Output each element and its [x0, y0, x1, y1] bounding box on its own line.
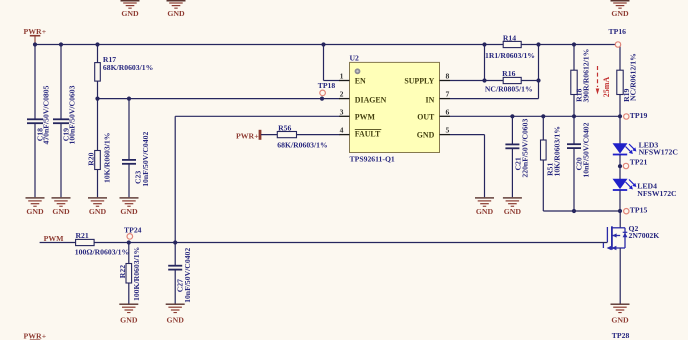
ground (C23) — [120, 197, 139, 216]
node: rail junction right of R14 — [536, 42, 540, 46]
power flag PWR+ (at R56) — [236, 130, 277, 141]
svg-text:PWR+: PWR+ — [236, 132, 259, 141]
wire: pin 7 IN riser — [450, 45, 539, 99]
svg-text:1R1/R0603/1%: 1R1/R0603/1% — [485, 51, 535, 60]
svg-text:PWM: PWM — [44, 234, 65, 243]
ground (pin 5) — [475, 197, 494, 216]
wire: pin 3 PWM net to lower rail — [175, 116, 339, 242]
resistor R19 — [617, 45, 638, 117]
node: junction R16 right — [536, 78, 540, 82]
wire: pin 8 SUPPLY riser — [450, 45, 503, 81]
capacitor C27 — [168, 243, 192, 304]
svg-text:GND: GND — [120, 315, 138, 324]
svg-text:6: 6 — [446, 107, 450, 116]
pin 3 PWM — [339, 107, 376, 121]
node: junction TP24/R22 — [127, 240, 131, 244]
test point TP15 — [624, 206, 648, 215]
node: junction at C23 — [127, 97, 131, 101]
test point TP21 — [618, 155, 648, 179]
node: junction C20 bottom — [572, 209, 576, 213]
svg-text:TP19: TP19 — [630, 111, 648, 120]
node: rail junction left of R14 — [482, 42, 486, 46]
resistor R21 — [75, 231, 129, 257]
capacitor C21 — [505, 116, 529, 197]
transistor Q2 2N7002K — [603, 211, 659, 304]
LED LED3 — [613, 116, 678, 156]
svg-text:NC/R0612/1%: NC/R0612/1% — [628, 53, 637, 101]
svg-text:220nF/50V/C0603: 220nF/50V/C0603 — [521, 119, 530, 178]
svg-text:R16: R16 — [502, 69, 515, 78]
svg-text:OUT: OUT — [417, 112, 435, 121]
svg-text:GND: GND — [52, 207, 70, 216]
node: rail junction at C19 — [59, 42, 63, 46]
svg-text:GND: GND — [504, 207, 522, 216]
pin 2 DIAGEN — [339, 90, 387, 105]
svg-text:10K/R0603/1%: 10K/R0603/1% — [103, 133, 112, 183]
capacitor C23 — [122, 99, 150, 198]
body diode on right leg — [623, 233, 628, 238]
capacitor C19 — [53, 45, 77, 198]
svg-text:TP28: TP28 — [612, 331, 630, 340]
resistor R14 — [485, 33, 535, 59]
pin 6 OUT — [417, 107, 450, 121]
ground (top, cut off) — [121, 0, 140, 18]
svg-text:TP21: TP21 — [630, 158, 648, 167]
power flag PWR+ (top left) — [24, 27, 47, 45]
svg-text:68K/R0603/1%: 68K/R0603/1% — [103, 63, 153, 72]
svg-text:5: 5 — [446, 126, 450, 135]
svg-text:GND: GND — [89, 207, 107, 216]
svg-text:U2: U2 — [350, 54, 360, 63]
svg-text:100K/R0603/1%: 100K/R0603/1% — [132, 247, 141, 301]
resistor R51 — [541, 116, 562, 211]
svg-text:10nF/50V/C0402: 10nF/50V/C0402 — [183, 248, 192, 303]
svg-text:GND: GND — [167, 315, 185, 324]
svg-text:GND: GND — [476, 207, 494, 216]
svg-text:GND: GND — [26, 207, 44, 216]
node: junction C21 — [510, 114, 514, 118]
svg-text:1: 1 — [340, 72, 344, 81]
pin 5 GND — [417, 126, 450, 140]
svg-text:100nF/50V/C0603: 100nF/50V/C0603 — [68, 85, 77, 144]
svg-text:NFSW172C: NFSW172C — [637, 189, 676, 198]
svg-text:TP24: TP24 — [124, 226, 142, 235]
test point TP24 — [124, 226, 142, 240]
node: rail junction at pin1 drop — [321, 42, 325, 46]
wire: OUT rail (pin 6) — [450, 115, 620, 117]
svg-text:NC/R0805/1%: NC/R0805/1% — [485, 85, 533, 94]
wire: top PWR+ rail — [35, 44, 620, 46]
ground (C21) — [503, 197, 522, 216]
svg-text:68K/R0603/1%: 68K/R0603/1% — [277, 141, 327, 150]
svg-text:R14: R14 — [503, 33, 516, 42]
svg-text:GND: GND — [121, 9, 139, 18]
svg-text:GND: GND — [417, 131, 435, 140]
svg-text:4: 4 — [340, 126, 344, 135]
svg-text:10K/R0603/1%: 10K/R0603/1% — [552, 126, 561, 176]
pin 1 EN — [339, 72, 366, 86]
ground (top 2, cut off) — [167, 0, 186, 18]
wire: pin 5 GND drop — [450, 135, 485, 198]
svg-text:PWR+: PWR+ — [24, 27, 47, 36]
pin 7 IN — [426, 90, 450, 105]
svg-text:PWR+: PWR+ — [24, 331, 47, 340]
svg-text:FAULT: FAULT — [355, 130, 381, 139]
pin 4 FAULT — [339, 126, 381, 139]
svg-text:TP18: TP18 — [318, 81, 336, 90]
wire: LED4 cathode to TP15 rail — [619, 190, 621, 211]
svg-text:IN: IN — [426, 95, 435, 104]
svg-text:10nF/50V/C0402: 10nF/50V/C0402 — [582, 122, 591, 177]
IC U2 TPS92611-Q1 — [350, 54, 440, 164]
svg-text:TP15: TP15 — [630, 206, 648, 215]
capacitor C20 — [567, 116, 591, 211]
svg-text:GND: GND — [167, 9, 185, 18]
ground (Q2 source) — [611, 304, 630, 325]
node: rail junction at C18 — [33, 42, 37, 46]
svg-text:PWM: PWM — [355, 112, 376, 121]
ground (C18) — [26, 197, 45, 216]
source arrows — [607, 246, 612, 250]
current annotation 25mA — [596, 66, 612, 97]
svg-text:2N7002K: 2N7002K — [629, 231, 660, 240]
svg-text:R56: R56 — [278, 124, 291, 133]
svg-text:10nF/50V/C0402: 10nF/50V/C0402 — [141, 132, 150, 187]
svg-text:3: 3 — [340, 107, 344, 116]
svg-text:390R/R0612/1%: 390R/R0612/1% — [582, 49, 591, 103]
svg-text:GND: GND — [611, 315, 629, 324]
svg-text:TP16: TP16 — [609, 27, 627, 36]
node: junction C20/R18 — [572, 114, 576, 118]
node: junction at TP18 — [320, 97, 324, 101]
node: junction at R17/R20 — [95, 97, 99, 101]
svg-text:R22: R22 — [118, 265, 127, 278]
svg-text:R20: R20 — [87, 152, 96, 165]
ground (C27) — [166, 304, 185, 325]
svg-text:2: 2 — [340, 90, 344, 99]
wire: PWM rail — [40, 242, 608, 244]
svg-text:EN: EN — [355, 77, 366, 86]
ground (R20) — [88, 197, 107, 216]
body stub with arrow — [612, 235, 620, 237]
svg-text:470nF/50V/C0805: 470nF/50V/C0805 — [42, 85, 51, 144]
resistor R17 — [95, 45, 154, 99]
svg-text:DIAGEN: DIAGEN — [355, 95, 387, 104]
test point TP18 — [318, 81, 336, 96]
ground (top right, cut off) — [611, 0, 630, 18]
svg-text:R21: R21 — [76, 231, 89, 240]
resistor R22 — [118, 243, 141, 304]
svg-text:25mA: 25mA — [602, 77, 611, 98]
LED LED4 — [613, 179, 677, 198]
node: junction pin8/R16 left — [482, 78, 486, 82]
resistor R20 — [87, 99, 112, 198]
power flag PWR+ (bottom, cut off) — [24, 331, 47, 340]
svg-text:GND: GND — [611, 9, 629, 18]
svg-text:TPS92611-Q1: TPS92611-Q1 — [350, 154, 395, 163]
svg-text:GND: GND — [120, 207, 138, 216]
test point TP16 — [609, 27, 627, 47]
node: junction R51 — [541, 114, 545, 118]
wire: pin 1 EN drop — [324, 45, 340, 81]
wire: DIAGEN net (pin 2) — [98, 98, 340, 100]
ground (R22) — [119, 304, 138, 325]
svg-text:8: 8 — [446, 72, 450, 81]
wire: bottom rail R51/C20 to Q2 drain — [543, 210, 620, 212]
svg-text:100Ω/R0603/1%: 100Ω/R0603/1% — [75, 248, 129, 257]
capacitor C18 — [27, 45, 51, 198]
resistor R16 — [485, 69, 539, 94]
svg-text:SUPPLY: SUPPLY — [404, 77, 434, 86]
resistor R18 — [571, 45, 591, 117]
node: rail junction at R17 — [95, 42, 99, 46]
ground (C19) — [52, 197, 71, 216]
svg-text:7: 7 — [446, 90, 450, 99]
node: junction C27/pin3 — [173, 240, 177, 244]
node: rail junction at R18 — [572, 42, 576, 46]
resistor R56 — [277, 124, 339, 150]
svg-text:NFSW172C: NFSW172C — [639, 148, 678, 157]
test point TP19 — [618, 111, 648, 120]
node: junction TP15 — [618, 209, 622, 213]
pin 8 SUPPLY — [404, 72, 450, 86]
